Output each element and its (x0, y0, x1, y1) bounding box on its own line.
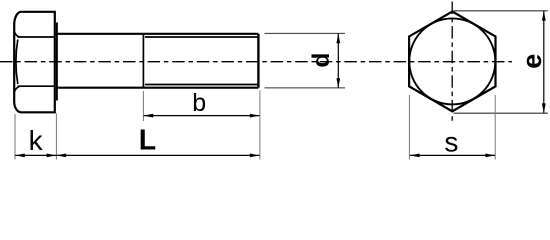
head facet line upper (18, 36, 55, 38)
head chamfer arc upper facet (14, 32, 19, 38)
extension line washer face (55, 114, 57, 160)
dimension line s (410, 154, 495, 156)
centerline bolt axis (0, 61, 512, 63)
arrow b left (143, 114, 153, 118)
head chamfer arc middle facet (16, 40, 18, 85)
extension line d bottom (265, 87, 346, 89)
arrow L right (250, 154, 260, 158)
dimension line k and L (15, 154, 259, 156)
head washer face (56, 23, 58, 101)
svg-text:k: k (29, 125, 44, 156)
extension line head left (14, 114, 16, 160)
dimension line b (144, 115, 260, 117)
extension line e top (454, 10, 548, 12)
extension line b left (142, 91, 144, 121)
vertical centerline hexagon (451, 2, 453, 124)
shank bottom (57, 87, 143, 89)
arrow k left (15, 154, 25, 158)
arrow s right (485, 154, 495, 158)
thread minor top (145, 36, 258, 38)
extension line d top (265, 32, 346, 34)
arrow k right (47, 154, 57, 158)
extension line bolt end vertical (259, 91, 261, 160)
svg-text:e: e (517, 54, 547, 69)
hexagon head end view (409, 12, 495, 112)
thread major bottom (143, 87, 258, 89)
arrow s left (410, 154, 420, 158)
extension line s left (408, 95, 410, 160)
dimension line d (337, 34, 339, 88)
arrow e up (542, 11, 546, 21)
svg-text:L: L (139, 125, 156, 157)
arrow d down (336, 78, 340, 88)
dimension line e (543, 11, 545, 113)
extension line e bottom (454, 112, 548, 114)
bolt end edge (257, 34, 259, 88)
thread runout line (142, 34, 144, 88)
hex head side view outline (14, 12, 55, 113)
arrow L left (56, 154, 66, 158)
thread minor bottom (145, 84, 258, 86)
head chamfer arc lower facet (14, 86, 19, 92)
svg-text:s: s (444, 127, 458, 158)
svg-text:d: d (308, 53, 335, 68)
arrow b right (250, 114, 260, 118)
thread major top (143, 33, 258, 35)
chamfer circle (409, 18, 495, 104)
extension line s right (494, 95, 496, 160)
arrow e down (542, 103, 546, 113)
svg-text:b: b (192, 89, 206, 117)
shank top (57, 33, 143, 35)
arrow d up (336, 33, 340, 43)
head facet line lower (18, 85, 55, 87)
